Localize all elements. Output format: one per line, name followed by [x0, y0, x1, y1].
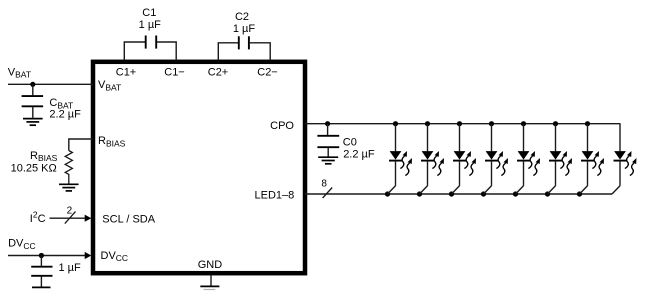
svg-text:VBAT: VBAT — [98, 79, 121, 92]
junction dot LED rail bottom 4 — [481, 191, 486, 196]
ground (CBAT) — [23, 119, 43, 126]
svg-text:C1+: C1+ — [116, 66, 137, 78]
svg-text:C2+: C2+ — [208, 66, 229, 78]
junction dot DVCC — [39, 253, 44, 258]
capacitor C1 — [124, 36, 176, 61]
svg-text:10.25 KΩ: 10.25 KΩ — [11, 163, 57, 175]
junction dot LED rail top 5 — [521, 121, 526, 126]
LED D6 — [548, 124, 573, 194]
junction dot LED rail bottom 6 — [545, 191, 550, 196]
LED D7 — [580, 124, 605, 194]
junction dot LED rail top 3 — [457, 121, 462, 126]
capacitor 1uF (DVCC) — [31, 256, 52, 288]
svg-text:RBIAS: RBIAS — [98, 135, 126, 148]
svg-text:2.2 µF: 2.2 µF — [343, 148, 375, 160]
junction dot LED rail top 2 — [425, 121, 430, 126]
arrowhead SCL/SDA — [85, 215, 92, 222]
svg-text:C1: C1 — [142, 7, 156, 19]
svg-text:GND: GND — [198, 259, 223, 271]
LED D3 — [452, 124, 477, 194]
junction dot LED rail bottom 2 — [417, 191, 422, 196]
svg-text:VBAT: VBAT — [8, 66, 31, 79]
svg-text:C2: C2 — [235, 11, 249, 23]
junction dot LED rail bottom 3 — [449, 191, 454, 196]
svg-text:I2C: I2C — [30, 210, 46, 225]
wire I2C — [50, 217, 87, 219]
junction dot LED rail top 4 — [489, 121, 494, 126]
junction dot LED rail bottom 1 — [385, 191, 390, 196]
svg-text:2: 2 — [67, 205, 73, 216]
resistor RBIAS — [65, 151, 72, 184]
LED D5 — [516, 124, 541, 194]
junction dot LED rail bottom 5 — [513, 191, 518, 196]
svg-text:SCL / SDA: SCL / SDA — [102, 213, 155, 225]
svg-text:1 µF: 1 µF — [59, 262, 82, 274]
wire RBIAS — [69, 139, 93, 151]
svg-text:2.2 µF: 2.2 µF — [49, 109, 81, 121]
ground (C0) — [318, 157, 338, 164]
LED D4 — [484, 124, 509, 194]
svg-text:C2−: C2− — [257, 66, 278, 78]
bus slash I2C — [65, 212, 76, 224]
LED D1 — [388, 124, 413, 194]
junction dot VBAT — [30, 82, 35, 87]
svg-text:C1−: C1− — [164, 66, 185, 78]
arrowhead DVCC — [85, 252, 92, 259]
svg-text:1 µF: 1 µF — [233, 23, 256, 35]
svg-text:LED1–8: LED1–8 — [255, 190, 295, 202]
ground (GND pin) — [200, 275, 219, 289]
wire CPO rail — [305, 123, 621, 125]
svg-text:CPO: CPO — [270, 120, 294, 132]
bus slash LED1-8 — [323, 188, 333, 199]
svg-text:1 µF: 1 µF — [139, 19, 162, 31]
junction dot LED rail top 1 — [393, 121, 398, 126]
IC body U1 — [93, 62, 305, 273]
junction dot C0 — [325, 121, 330, 126]
junction dot LED rail top 6 — [553, 121, 558, 126]
LED D2 — [420, 124, 445, 194]
svg-text:DVCC: DVCC — [8, 238, 36, 251]
junction dot LED rail top 7 — [585, 121, 590, 126]
junction dot LED rail bottom 7 — [577, 191, 582, 196]
ground (RBIAS) — [59, 184, 79, 191]
capacitor CBAT — [22, 84, 43, 118]
svg-text:RBIAS: RBIAS — [30, 150, 58, 163]
wire LED1-8 rail — [305, 193, 612, 195]
svg-text:8: 8 — [321, 178, 327, 189]
svg-text:DVCC: DVCC — [101, 250, 129, 263]
capacitor C0 — [317, 124, 339, 157]
svg-text:C0: C0 — [343, 136, 357, 148]
wire DVCC — [8, 255, 86, 257]
wire VBAT — [8, 83, 93, 85]
capacitor C2 — [218, 36, 270, 60]
LED D8 — [612, 124, 637, 194]
